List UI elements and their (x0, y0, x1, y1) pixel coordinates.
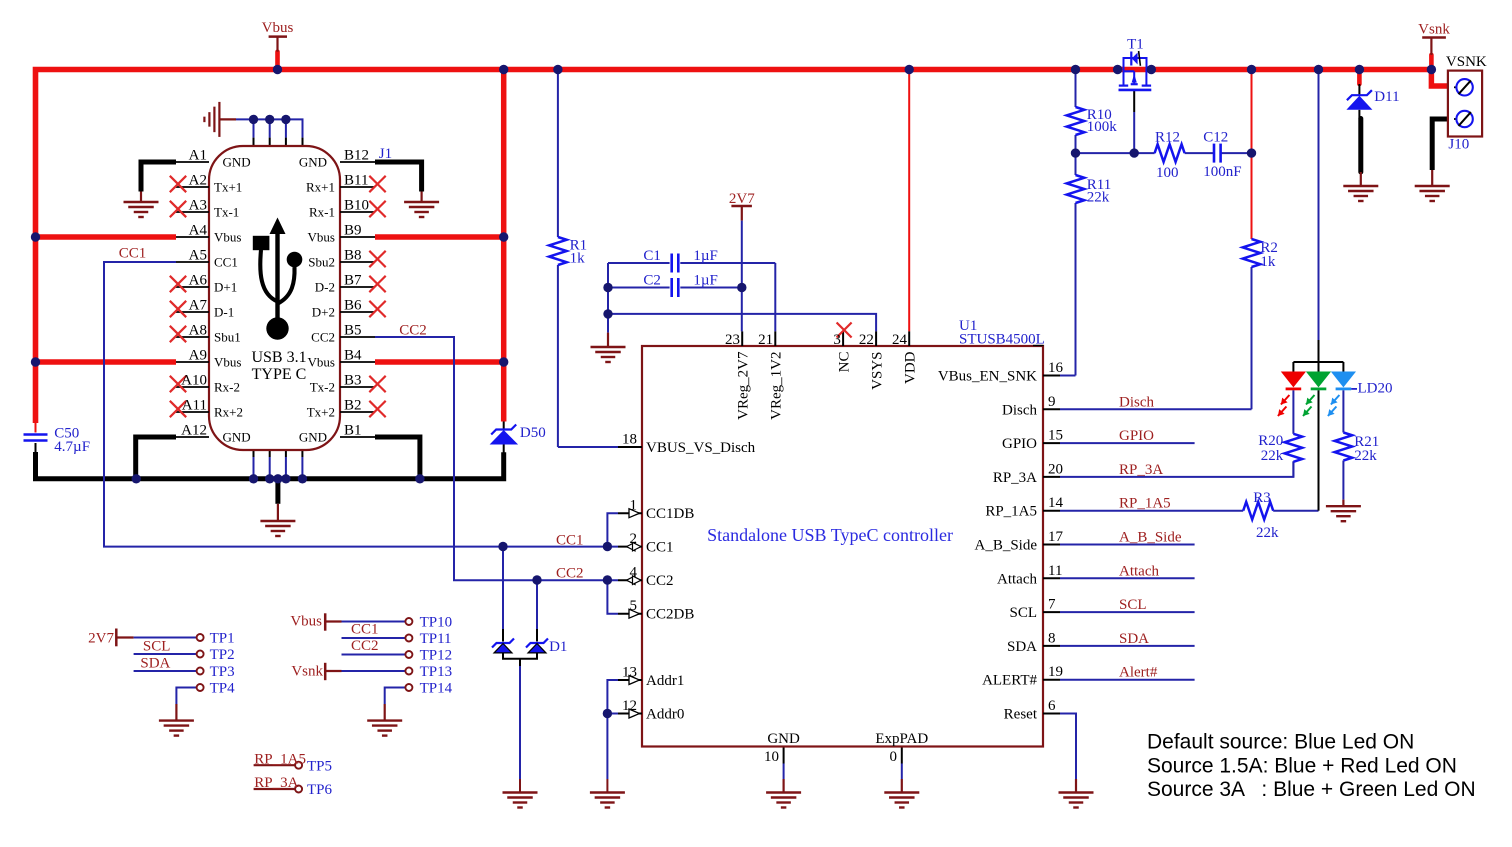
svg-text:TP11: TP11 (420, 631, 452, 647)
svg-text:VReg_2V7: VReg_2V7 (736, 351, 752, 420)
svg-text:GND: GND (299, 429, 327, 444)
svg-text:SCL: SCL (1009, 605, 1037, 621)
svg-text:Tx-2: Tx-2 (310, 379, 335, 394)
svg-text:4.7µF: 4.7µF (54, 439, 90, 455)
svg-text:LD20: LD20 (1358, 381, 1393, 397)
svg-text:TP4: TP4 (210, 681, 236, 697)
svg-text:Alert#: Alert# (1119, 665, 1158, 681)
svg-text:RP_3A: RP_3A (254, 775, 298, 791)
svg-text:B2: B2 (344, 398, 362, 414)
svg-text:13: 13 (622, 665, 637, 681)
svg-text:20: 20 (1048, 461, 1063, 477)
svg-text:A7: A7 (189, 298, 208, 314)
svg-text:7: 7 (1048, 597, 1056, 613)
svg-text:B7: B7 (344, 273, 362, 289)
svg-text:Rx-2: Rx-2 (214, 379, 240, 394)
svg-text:A4: A4 (189, 223, 208, 239)
svg-text:R3: R3 (1253, 490, 1271, 506)
svg-text:0: 0 (890, 749, 898, 765)
svg-text:GPIO: GPIO (1002, 436, 1037, 452)
svg-text:A5: A5 (189, 248, 207, 264)
svg-text:CC1: CC1 (646, 540, 674, 556)
svg-text:Vbus: Vbus (214, 354, 241, 369)
svg-text:GND: GND (767, 731, 800, 747)
svg-text:Rx-1: Rx-1 (309, 204, 335, 219)
svg-text:Standalone USB TypeC controlle: Standalone USB TypeC controller (707, 525, 953, 545)
svg-text:14: 14 (1048, 495, 1064, 511)
svg-text:1k: 1k (570, 251, 586, 267)
svg-text:TP5: TP5 (307, 759, 332, 775)
svg-text:D+1: D+1 (214, 279, 237, 294)
svg-text:17: 17 (1048, 529, 1064, 545)
svg-text:3: 3 (833, 332, 841, 348)
svg-text:B11: B11 (344, 173, 368, 189)
svg-text:CC2: CC2 (399, 323, 427, 339)
svg-text:B6: B6 (344, 298, 362, 314)
svg-text:Attach: Attach (997, 571, 1037, 587)
svg-text:B12: B12 (344, 148, 369, 164)
svg-text:TP12: TP12 (420, 648, 453, 664)
svg-text:J10: J10 (1448, 137, 1469, 153)
svg-text:TP10: TP10 (420, 615, 453, 631)
svg-text:A3: A3 (189, 198, 207, 214)
svg-text:Rx+1: Rx+1 (306, 179, 335, 194)
svg-text:B10: B10 (344, 198, 369, 214)
svg-text:RP_3A: RP_3A (993, 470, 1037, 486)
svg-text:B3: B3 (344, 373, 362, 389)
svg-text:Rx+2: Rx+2 (214, 404, 243, 419)
svg-text:VDD: VDD (903, 351, 919, 384)
svg-text:TP3: TP3 (210, 664, 235, 680)
svg-text:6: 6 (1048, 698, 1056, 714)
svg-text:GND: GND (223, 429, 251, 444)
svg-text:A_B_Side: A_B_Side (974, 538, 1037, 554)
svg-text:Tx-1: Tx-1 (214, 204, 239, 219)
svg-text:Addr0: Addr0 (646, 707, 684, 723)
svg-text:CC1: CC1 (351, 622, 379, 638)
svg-text:9: 9 (1048, 394, 1056, 410)
svg-text:RP_1A5: RP_1A5 (985, 504, 1037, 520)
svg-text:VReg_1V2: VReg_1V2 (769, 352, 785, 420)
svg-text:Disch: Disch (1002, 402, 1037, 418)
svg-text:A8: A8 (189, 323, 207, 339)
svg-text:Vbus: Vbus (308, 354, 335, 369)
svg-text:19: 19 (1048, 664, 1063, 680)
svg-text:RP_1A5: RP_1A5 (1119, 496, 1171, 512)
svg-text:12: 12 (622, 698, 637, 714)
svg-text:B9: B9 (344, 223, 362, 239)
svg-text:A12: A12 (181, 423, 207, 439)
svg-text:A11: A11 (182, 398, 207, 414)
svg-text:1k: 1k (1260, 254, 1276, 270)
svg-text:CC2: CC2 (646, 573, 674, 589)
svg-text:1µF: 1µF (693, 273, 718, 289)
svg-text:B8: B8 (344, 248, 362, 264)
svg-text:RP_1A5: RP_1A5 (254, 751, 306, 767)
svg-text:C1: C1 (643, 248, 661, 264)
svg-text:Vbus: Vbus (308, 229, 335, 244)
svg-text:CC1: CC1 (556, 533, 584, 549)
svg-text:Vsnk: Vsnk (1418, 22, 1450, 38)
svg-text:D-1: D-1 (214, 304, 234, 319)
svg-text:5: 5 (630, 598, 638, 614)
svg-text:Vsnk: Vsnk (291, 664, 323, 680)
svg-text:24: 24 (892, 332, 908, 348)
svg-text:GPIO: GPIO (1119, 428, 1154, 444)
svg-text:23: 23 (725, 332, 740, 348)
svg-text:B5: B5 (344, 323, 362, 339)
svg-text:RP_3A: RP_3A (1119, 462, 1163, 478)
svg-text:CC2: CC2 (351, 638, 379, 654)
svg-text:10: 10 (764, 749, 779, 765)
svg-text:CC1: CC1 (214, 254, 238, 269)
svg-text:VSYS: VSYS (869, 352, 885, 390)
svg-text:2: 2 (630, 531, 638, 547)
svg-text:100k: 100k (1087, 119, 1118, 135)
svg-text:Source 1.5A: Blue + Red Led ON: Source 1.5A: Blue + Red Led ON (1147, 754, 1457, 777)
svg-text:22: 22 (859, 332, 874, 348)
svg-text:2V7: 2V7 (88, 631, 114, 647)
svg-text:VBus_EN_SNK: VBus_EN_SNK (938, 369, 1037, 385)
svg-text:T1: T1 (1127, 37, 1144, 53)
svg-text:SDA: SDA (1007, 639, 1037, 655)
svg-text:Default source: Blue Led ON: Default source: Blue Led ON (1147, 731, 1414, 754)
svg-text:SDA: SDA (1119, 631, 1149, 647)
svg-text:D11: D11 (1374, 89, 1399, 105)
svg-text:22k: 22k (1261, 448, 1284, 464)
svg-text:A2: A2 (189, 173, 207, 189)
svg-text:B1: B1 (344, 423, 362, 439)
svg-text:SCL: SCL (143, 639, 171, 655)
svg-text:Addr1: Addr1 (646, 673, 684, 689)
svg-text:TP1: TP1 (210, 631, 235, 647)
svg-text:R20: R20 (1258, 433, 1283, 449)
svg-text:TP2: TP2 (210, 647, 235, 663)
svg-text:A10: A10 (181, 373, 207, 389)
svg-text:22k: 22k (1354, 448, 1377, 464)
svg-text:Tx+2: Tx+2 (307, 404, 335, 419)
svg-text:D+2: D+2 (312, 304, 335, 319)
svg-text:Vbus: Vbus (262, 20, 294, 36)
svg-text:TYPE C: TYPE C (252, 366, 307, 383)
svg-text:1µF: 1µF (693, 248, 718, 264)
svg-text:NC: NC (836, 352, 852, 373)
svg-text:CC1DB: CC1DB (646, 506, 694, 522)
svg-text:4: 4 (630, 565, 638, 581)
svg-text:GND: GND (223, 154, 251, 169)
svg-text:Tx+1: Tx+1 (214, 179, 242, 194)
svg-text:A_B_Side: A_B_Side (1119, 530, 1182, 546)
svg-text:R12: R12 (1155, 130, 1180, 146)
svg-text:Vbus: Vbus (214, 229, 241, 244)
svg-text:100nF: 100nF (1203, 164, 1241, 180)
svg-text:A9: A9 (189, 348, 207, 364)
svg-text:8: 8 (1048, 630, 1056, 646)
svg-text:100: 100 (1156, 165, 1179, 181)
svg-text:Reset: Reset (1004, 707, 1038, 723)
svg-text:22k: 22k (1256, 525, 1279, 541)
svg-text:Disch: Disch (1119, 394, 1154, 410)
svg-text:B4: B4 (344, 348, 362, 364)
svg-text:16: 16 (1048, 360, 1064, 376)
svg-text:SDA: SDA (140, 656, 170, 672)
svg-text:TP6: TP6 (307, 782, 333, 798)
svg-text:A1: A1 (189, 148, 207, 164)
svg-text:CC1: CC1 (119, 246, 147, 262)
svg-text:TP13: TP13 (420, 664, 453, 680)
svg-text:GND: GND (299, 154, 327, 169)
svg-text:21: 21 (758, 332, 773, 348)
svg-text:A6: A6 (189, 273, 208, 289)
svg-text:CC2DB: CC2DB (646, 607, 694, 623)
svg-text:ALERT#: ALERT# (982, 673, 1037, 689)
svg-text:USB 3.1: USB 3.1 (251, 349, 306, 366)
svg-text:STUSB4500L: STUSB4500L (959, 332, 1045, 348)
svg-text:VSNK: VSNK (1446, 54, 1487, 70)
svg-text:VBUS_VS_Disch: VBUS_VS_Disch (646, 440, 756, 456)
svg-text:ExpPAD: ExpPAD (875, 731, 928, 747)
svg-text:1: 1 (630, 498, 638, 514)
svg-text:J1: J1 (379, 146, 392, 162)
svg-text:CC2: CC2 (311, 329, 335, 344)
svg-text:C12: C12 (1203, 130, 1228, 146)
svg-text:18: 18 (622, 432, 637, 448)
svg-text:Attach: Attach (1119, 563, 1159, 579)
svg-text:15: 15 (1048, 428, 1063, 444)
svg-text:TP14: TP14 (420, 681, 453, 697)
svg-text:11: 11 (1048, 563, 1062, 579)
svg-text:C2: C2 (643, 273, 661, 289)
svg-text:2V7: 2V7 (729, 191, 755, 207)
svg-text:22k: 22k (1087, 190, 1110, 206)
svg-text:SCL: SCL (1119, 597, 1147, 613)
svg-text:Sbu2: Sbu2 (308, 254, 335, 269)
svg-text:CC2: CC2 (556, 566, 584, 582)
svg-text:Vbus: Vbus (290, 614, 322, 630)
svg-text:Source 3A : Blue + Green Led: Source 3A : Blue + Green Led ON (1147, 778, 1476, 801)
svg-text:D1: D1 (549, 639, 567, 655)
svg-text:D50: D50 (520, 425, 546, 441)
svg-text:Sbu1: Sbu1 (214, 329, 241, 344)
svg-text:D-2: D-2 (315, 279, 335, 294)
